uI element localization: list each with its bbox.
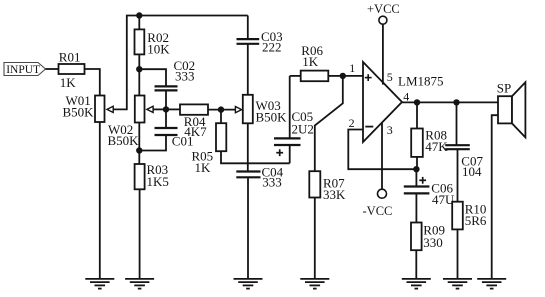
capacitor C06 [404,169,455,222]
node dot op-amp pin1 [340,73,346,79]
ground under R07 [300,279,329,289]
potentiometer W02 [108,96,154,148]
capacitor C03 [237,16,283,55]
INPUT terminal tag [4,63,46,77]
wire W01 wiper to top rail [113,16,248,110]
ground under W01 [85,279,114,289]
ground under R10 [443,279,472,289]
svg-text:2U2: 2U2 [292,122,314,137]
capacitor C01 [139,109,193,150]
svg-text:4: 4 [403,89,409,103]
ground under speaker [477,279,506,289]
svg-text:333: 333 [175,69,195,84]
svg-text:1K: 1K [60,75,77,90]
resistor R07 [309,171,346,279]
node dot W02 bottom / R03 [136,147,142,153]
wire R04 to W03 wiper [208,109,236,111]
svg-text:222: 222 [262,40,282,55]
wire INPUT to R01 [46,68,59,70]
wire node to op-amp + input [343,75,363,77]
capacitor C05 [274,76,314,163]
capacitor C04 [236,164,283,279]
wire speaker return to ground [492,115,498,279]
node dot output R08 [414,99,420,105]
ground under C04 [234,279,263,289]
wire W03 bottom to C04 [247,123,249,171]
wire W02 wiper to node [153,108,166,110]
svg-text:3: 3 [387,123,393,137]
svg-text:R01: R01 [59,50,81,65]
svg-text:1: 1 [349,61,355,75]
svg-text:LM1875: LM1875 [398,74,444,89]
wire node to R04 [166,108,180,110]
resistor R08 [411,102,448,169]
potentiometer W01 [63,93,114,122]
svg-text:INPUT: INPUT [6,64,40,76]
svg-text:1K: 1K [302,54,319,69]
output wire to speaker [402,101,498,103]
wire W01 bottom to ground [99,122,101,279]
svg-text:1K5: 1K5 [147,174,169,189]
svg-text:B50K: B50K [63,105,95,120]
svg-text:47K: 47K [425,139,448,154]
wire node to C02 [139,69,166,86]
svg-text:B50K: B50K [108,133,140,148]
wire R05 bottom to C05 bottom [221,151,290,163]
svg-text:-VCC: -VCC [363,204,393,218]
node dot output C07 [453,99,459,105]
resistor R04 [180,104,208,138]
ground under R03 [125,279,154,289]
node dot R02 bottom [136,66,142,72]
pin 3 -VCC [363,123,393,218]
resistor R09 [411,222,445,279]
pin 5 +VCC [367,2,400,85]
resistor R05 [192,110,227,175]
svg-text:1K: 1K [195,160,212,175]
node dot R04 right [218,106,224,112]
capacitor C02 [155,58,196,109]
wire R01 to W01 top [85,69,100,96]
potentiometer W03 [243,95,287,125]
resistor R06 [290,43,343,81]
op-amp U1 LM1875 [363,62,444,142]
svg-text:SP: SP [497,80,511,95]
svg-text:33K: 33K [323,187,346,202]
svg-text:+VCC: +VCC [367,2,400,16]
resistor R10 [452,201,487,279]
resistor R01 [59,50,85,90]
resistor R02 [135,16,171,70]
wire W02 bottom [138,123,140,165]
wire node to W02 top [138,69,140,95]
svg-text:333: 333 [262,175,282,190]
node dot wiper junction [163,106,169,112]
wire W03 top to C03 [247,44,249,95]
svg-text:10K: 10K [147,41,170,56]
svg-text:5: 5 [387,70,393,84]
W03 wiper arrow [235,107,241,113]
speaker SP [497,80,526,137]
svg-text:4K7: 4K7 [184,124,207,139]
svg-text:5R6: 5R6 [465,213,487,228]
svg-text:104: 104 [462,164,482,179]
capacitor C07 [445,102,483,201]
node dot top rail / R02 [136,12,142,18]
wire node to R07 [315,76,343,171]
svg-text:B50K: B50K [256,109,288,124]
pin 2 feedback wire [348,130,416,170]
svg-text:2: 2 [349,116,355,130]
svg-text:330: 330 [423,235,443,250]
node dot feedback [413,166,419,172]
ground under R09 [402,279,431,289]
resistor R03 [135,162,169,279]
